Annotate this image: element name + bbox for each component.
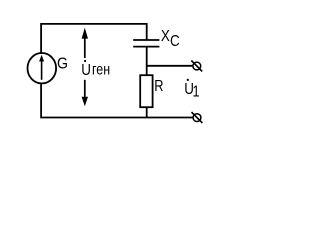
- svg-text:X: X: [161, 28, 170, 45]
- svg-text:R: R: [154, 78, 163, 96]
- svg-text:ген: ген: [92, 61, 110, 79]
- svg-text:1: 1: [193, 83, 200, 101]
- svg-text:G: G: [57, 55, 68, 73]
- svg-text:C: C: [170, 33, 180, 50]
- svg-text:U: U: [81, 62, 91, 79]
